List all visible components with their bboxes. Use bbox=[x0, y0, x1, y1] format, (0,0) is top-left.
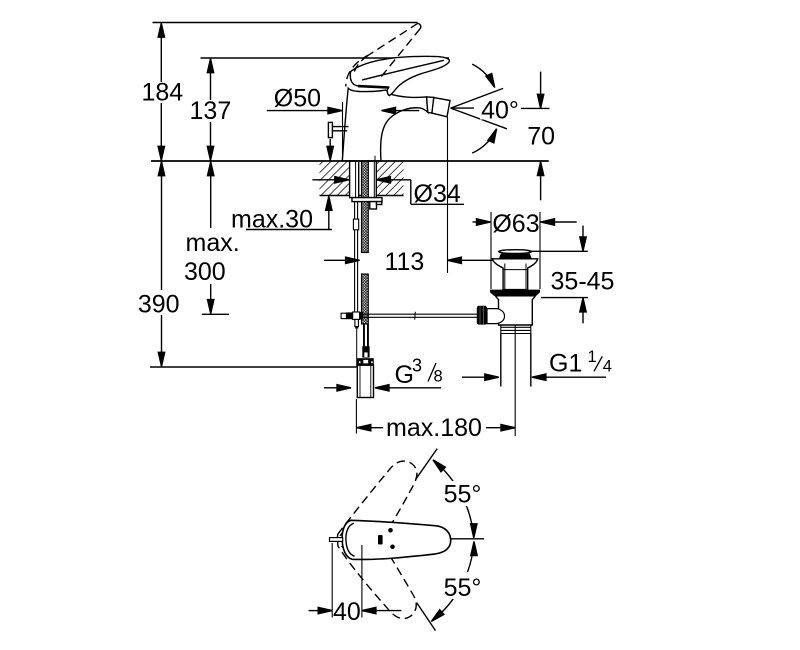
svg-text:1: 1 bbox=[588, 348, 597, 366]
aerator projection line bbox=[447, 117, 449, 273]
hose nut bbox=[357, 358, 374, 365]
dim 390 bbox=[161, 161, 163, 367]
pop-up pull knob (side view) bbox=[328, 122, 332, 137]
dim 137 bbox=[210, 58, 212, 161]
dim 184 bbox=[160, 23, 162, 162]
handle top-view rotated +55 (dashed) bbox=[332, 516, 426, 627]
svg-text:300: 300 bbox=[184, 258, 226, 286]
handle top view (solid) bbox=[342, 520, 451, 559]
svg-text:390: 390 bbox=[138, 290, 180, 318]
handle slot bbox=[378, 535, 383, 545]
dim dia63 bbox=[490, 212, 492, 289]
flexible hose (braided, lower) bbox=[362, 274, 369, 324]
mounting washer bbox=[352, 198, 382, 202]
pop-up rod bbox=[354, 202, 356, 313]
svg-text:G1: G1 bbox=[549, 350, 582, 378]
drain plug cap bbox=[499, 250, 532, 254]
svg-text:35-45: 35-45 bbox=[551, 267, 615, 295]
arc 40deg lower bbox=[472, 129, 496, 153]
countertop hatch right bbox=[376, 161, 403, 196]
dim dia50 bbox=[342, 102, 344, 161]
countertop bottom line bbox=[320, 195, 404, 197]
lever handle bbox=[350, 56, 449, 95]
svg-text:4: 4 bbox=[603, 358, 612, 376]
svg-text:55°: 55° bbox=[444, 481, 482, 509]
drain body flange (black) bbox=[490, 290, 540, 296]
dim dia34 bbox=[312, 179, 335, 181]
svg-text:70: 70 bbox=[527, 123, 555, 151]
lever ridge line bbox=[358, 86, 389, 87]
hose crimp fitting bbox=[362, 346, 369, 357]
svg-text:137: 137 bbox=[190, 97, 232, 125]
svg-text:40: 40 bbox=[333, 598, 361, 626]
faucet body bbox=[342, 88, 428, 161]
rod lower end bbox=[355, 319, 359, 326]
svg-text:Ø63: Ø63 bbox=[492, 210, 539, 238]
rod slider bbox=[353, 219, 358, 230]
rod passage in base bbox=[374, 156, 376, 161]
lever inner contour bbox=[362, 60, 444, 80]
label 55deg lower bbox=[441, 572, 488, 599]
aerator coupling bbox=[427, 97, 434, 113]
hose lines below arm bbox=[363, 324, 365, 346]
55deg extension line lower bbox=[417, 603, 436, 631]
adjuster stem bbox=[487, 309, 505, 324]
arc 55deg upper bbox=[433, 460, 474, 538]
handle centerline bbox=[450, 538, 485, 540]
svg-text:max.: max. bbox=[186, 229, 240, 257]
dim max.180 bbox=[355, 399, 357, 434]
arc 55deg lower bbox=[431, 542, 474, 622]
G3/8 tail bbox=[357, 365, 373, 397]
adjuster knurled knob bbox=[477, 306, 487, 325]
svg-text:Ø34: Ø34 bbox=[414, 180, 461, 208]
label 40deg bbox=[480, 99, 520, 119]
spray fan 40deg bbox=[451, 88, 504, 108]
label 55deg upper bbox=[441, 481, 488, 506]
aerator bbox=[432, 98, 450, 117]
pull knob stub (top view) bbox=[330, 538, 343, 542]
svg-text:40°: 40° bbox=[481, 97, 519, 125]
dim 113 bbox=[324, 259, 346, 261]
drain body bbox=[495, 296, 535, 325]
mounting nut bbox=[370, 202, 377, 209]
55deg extension line upper bbox=[416, 449, 437, 480]
drain bottom band bbox=[501, 326, 531, 328]
shank tube right bbox=[368, 161, 376, 198]
ref line 137 bbox=[201, 57, 450, 59]
lever raised (dashed) bbox=[346, 23, 421, 86]
shank tube left bbox=[350, 161, 359, 198]
dim 35-45 bbox=[529, 250, 588, 252]
svg-text:3: 3 bbox=[412, 356, 422, 376]
svg-text:184: 184 bbox=[141, 79, 183, 107]
arc 40deg upper bbox=[472, 64, 495, 87]
pop-up arm bbox=[363, 313, 477, 315]
mounting deck line bbox=[151, 160, 549, 162]
label G1 1/4 bbox=[462, 376, 485, 378]
drain centerline bbox=[514, 324, 516, 437]
ref line top (lever raised height) bbox=[153, 22, 418, 24]
svg-text:Ø50: Ø50 bbox=[274, 85, 321, 113]
svg-text:113: 113 bbox=[384, 248, 424, 276]
drain tailpipe bbox=[500, 334, 502, 387]
dim max.30 bbox=[229, 229, 332, 231]
drain plug flange bbox=[492, 259, 537, 290]
label G3/8 bbox=[324, 387, 337, 389]
flexible hose (braided, upper) bbox=[362, 161, 369, 253]
svg-text:8: 8 bbox=[434, 368, 443, 386]
arm clamp bbox=[341, 313, 346, 318]
dim max.300 bbox=[210, 161, 212, 314]
dim 70 bbox=[540, 72, 542, 95]
dim 40 (bottom view) bbox=[331, 543, 333, 618]
svg-text:55°: 55° bbox=[444, 574, 482, 602]
svg-text:max.180: max.180 bbox=[386, 414, 482, 442]
handle top-view rotated -55 (dashed) bbox=[333, 452, 427, 563]
knob clearance arrow bbox=[329, 139, 331, 148]
countertop hatch left bbox=[320, 161, 349, 196]
